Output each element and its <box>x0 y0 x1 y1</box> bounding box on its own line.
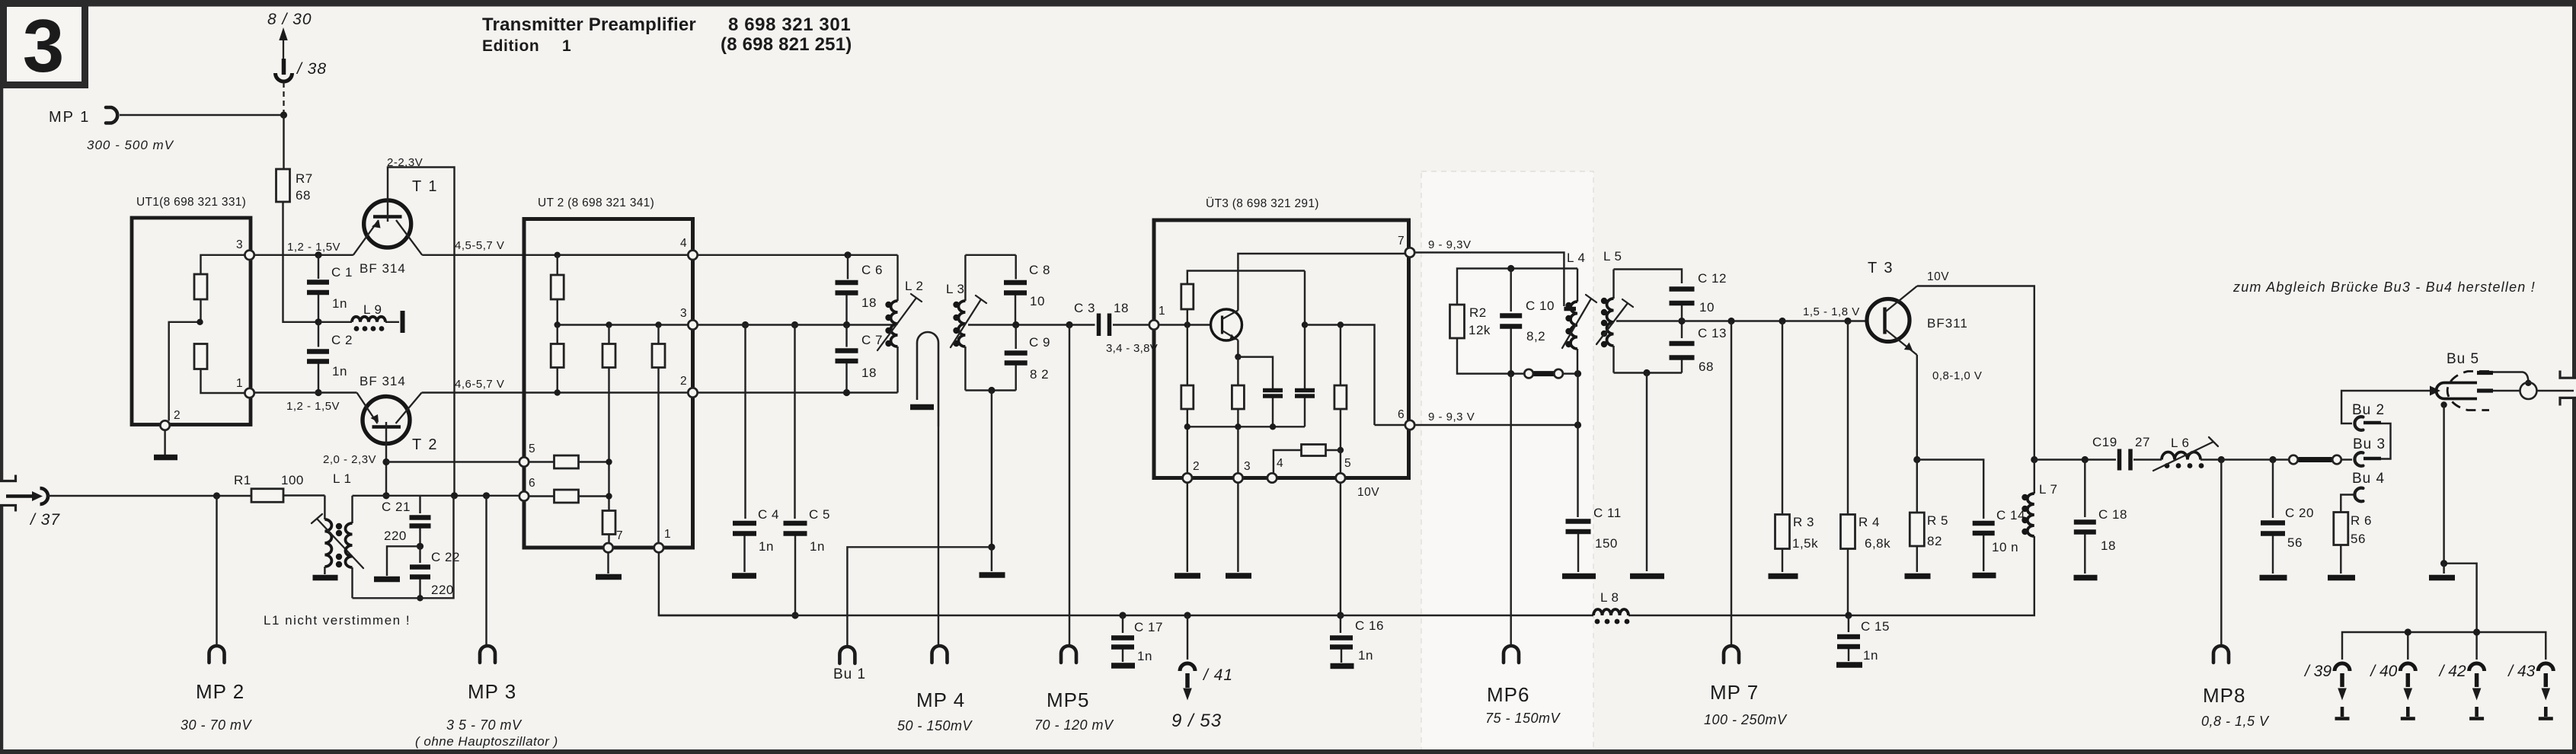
svg-text:1n: 1n <box>332 296 347 311</box>
ground of L5 rail <box>1630 373 1664 577</box>
svg-text:1n: 1n <box>759 539 774 554</box>
junction MP2 <box>213 492 220 499</box>
svg-text:C 8: C 8 <box>1029 263 1050 277</box>
inductor L8 in bus <box>1593 590 1629 624</box>
connector /38 socket <box>276 59 328 81</box>
resistor R1 <box>251 489 283 503</box>
L3 adjustment arrow <box>951 296 986 347</box>
measurement point MP6 <box>1485 646 1561 726</box>
wire L3 tap row to C3 <box>968 324 1095 325</box>
ground below UT2 pin7 <box>596 553 622 577</box>
svg-text:T 1: T 1 <box>412 178 439 195</box>
junction C7 bottom <box>843 389 850 396</box>
svg-text:R 3: R 3 <box>1793 515 1814 529</box>
svg-text:68: 68 <box>1699 359 1714 374</box>
capacitor C16 <box>1330 615 1384 666</box>
svg-text:L 3: L 3 <box>946 282 965 296</box>
junction L4 bottom on rail <box>1574 370 1581 377</box>
svg-text:220: 220 <box>384 529 407 543</box>
L1 adjustment arrow <box>312 514 363 568</box>
UT3 pin3 <box>1233 473 1242 482</box>
UT3 wire bus to pin3 <box>1237 427 1238 473</box>
svg-text:1: 1 <box>562 37 571 55</box>
measurement point MP7 <box>1704 646 1788 727</box>
inductor L2 <box>891 255 924 393</box>
resistor R5 <box>1905 460 1948 577</box>
output bridge sockets <box>2289 455 2352 465</box>
L4 adjustment arrow <box>1562 295 1596 348</box>
svg-text:C 14: C 14 <box>1996 508 2025 522</box>
wire C3 to UT3 pin1 <box>1113 324 1149 325</box>
svg-text:82: 82 <box>1927 534 1942 548</box>
UT3 bias junction <box>1184 321 1191 327</box>
measurement point MP3 <box>415 646 558 749</box>
svg-text:50 - 150mV: 50 - 150mV <box>897 718 973 733</box>
junction C1 top <box>315 251 321 258</box>
UT2 pin7 <box>603 543 612 552</box>
capacitor C14 <box>1973 508 2025 576</box>
capacitor C2 <box>307 322 353 393</box>
svg-text:L 7: L 7 <box>2039 482 2058 497</box>
svg-text:C 6: C 6 <box>861 263 883 277</box>
svg-text:T 2: T 2 <box>412 436 439 453</box>
wire UT2 pin2 to L2 bottom <box>698 391 898 393</box>
junction L4 bottom / pin6 row <box>1574 421 1581 428</box>
svg-text:Transmitter Preamplifier: Transmitter Preamplifier <box>482 14 696 35</box>
capacitor C20 <box>2260 460 2314 578</box>
svg-text:3: 3 <box>236 238 243 251</box>
svg-text:2: 2 <box>174 409 181 422</box>
connector Bu5 output jack <box>2430 351 2493 411</box>
capacitor C1 <box>307 255 353 322</box>
UT3 internal bus <box>1187 426 1305 427</box>
svg-text:8,2: 8,2 <box>1526 329 1545 343</box>
junction on pin circle <box>2525 380 2531 386</box>
connector /42 off-sheet <box>2438 663 2485 719</box>
L4 tap bar <box>1564 307 1576 312</box>
svg-text:12k: 12k <box>1469 323 1491 337</box>
measurement point MP4 <box>897 646 973 733</box>
svg-text:1: 1 <box>236 377 243 390</box>
svg-text:68: 68 <box>296 188 311 203</box>
wire Bu5 screen to ground and /39 manifold <box>2444 405 2477 633</box>
svg-text:1n: 1n <box>332 364 347 379</box>
measurement point MP1 <box>49 107 117 126</box>
junction Bu5 screen <box>2440 401 2447 407</box>
svg-text:3: 3 <box>680 307 687 320</box>
svg-text:C 7: C 7 <box>861 333 883 347</box>
svg-text:L 4: L 4 <box>1567 251 1586 265</box>
junction C20 <box>2269 456 2276 463</box>
svg-text:C 10: C 10 <box>1526 299 1555 313</box>
svg-text:C 20: C 20 <box>2285 506 2314 520</box>
svg-text:1: 1 <box>1159 305 1165 318</box>
UT2 pin6 <box>519 491 529 500</box>
svg-text:C 15: C 15 <box>1861 619 1890 634</box>
svg-text:8 / 30: 8 / 30 <box>267 11 312 28</box>
UT2 pin5 <box>519 457 529 466</box>
UT3 pin2 <box>1183 473 1192 482</box>
capacitor C22 <box>410 546 460 598</box>
svg-text:4: 4 <box>1277 457 1283 470</box>
junction R4 <box>1844 318 1851 324</box>
svg-text:Bu 3: Bu 3 <box>2353 436 2386 452</box>
svg-text:1,5 - 1,8 V: 1,5 - 1,8 V <box>1803 305 1860 318</box>
sheet border bottom <box>0 749 2576 754</box>
left edge connector brackets at /37 <box>0 475 16 512</box>
UT3 pin6 <box>1405 420 1414 430</box>
capacitor C4 <box>732 321 779 576</box>
capacitor C6 <box>836 255 883 325</box>
svg-text:3 5 - 70 mV: 3 5 - 70 mV <box>446 717 523 733</box>
UT3 bottom resistor to pin4 <box>1274 445 1341 474</box>
svg-text:56: 56 <box>2351 532 2366 546</box>
svg-text:18: 18 <box>861 296 877 310</box>
svg-text:/ 38: / 38 <box>296 60 327 78</box>
capacitor C21 <box>382 496 431 547</box>
svg-text:UT 2 (8 698 321 341): UT 2 (8 698 321 341) <box>538 196 654 209</box>
junction R4/C15 on bus <box>1845 612 1852 618</box>
junction MP5 <box>1066 321 1072 328</box>
junction C18 <box>2082 456 2089 463</box>
svg-text:L 2: L 2 <box>905 279 924 293</box>
svg-text:R2: R2 <box>1469 305 1487 320</box>
junction C12/C13 output tap <box>1678 318 1685 324</box>
transistor T2 BF314 <box>357 374 439 453</box>
wire T1 collector top loop to feedback rail <box>388 168 455 496</box>
svg-text:70 - 120 mV: 70 - 120 mV <box>1034 717 1114 733</box>
junction T3 emitter node <box>1913 456 1920 463</box>
wire MP2 drop <box>216 496 217 646</box>
tank bottom rail <box>1457 338 1523 374</box>
svg-text:C 2: C 2 <box>331 333 353 347</box>
svg-text:UT1(8 698 321 331): UT1(8 698 321 331) <box>136 196 246 209</box>
junction L3 bottom to Bu1 line <box>988 387 995 394</box>
UT3 base feed wire <box>1159 324 1212 325</box>
junction MP7 <box>1727 318 1734 324</box>
wire /37 to R1 <box>47 495 251 497</box>
ground of Bu5 screen <box>2429 564 2455 578</box>
socket Bu3 <box>2353 436 2386 466</box>
UT2 pin3 <box>688 320 697 329</box>
L6 adjustment arrow <box>2153 437 2218 471</box>
svg-text:L 5: L 5 <box>1603 249 1622 264</box>
svg-text:1n: 1n <box>1863 648 1878 663</box>
socket Bu2 <box>2352 402 2385 430</box>
wire UT2 pin3 to L2 tap <box>698 324 894 325</box>
UT3 pin1 <box>1149 320 1159 329</box>
wire Bu5 to sheet edge <box>2493 390 2574 391</box>
junction manifold /40 <box>2405 628 2411 635</box>
wire L3 bottom row <box>965 389 1015 391</box>
UT2 internal resistor pin4-pin3 <box>551 252 564 325</box>
junction C10 top <box>1507 265 1514 272</box>
svg-text:2: 2 <box>680 375 687 388</box>
svg-text:10V: 10V <box>1927 270 1949 283</box>
svg-text:56: 56 <box>2287 535 2303 550</box>
svg-text:C 1: C 1 <box>331 265 353 280</box>
UT3 net to pin6 <box>1305 321 1405 425</box>
wire manifold to off-sheet grounds <box>2342 632 2546 660</box>
UT2 internal resistor to pin7 <box>602 511 615 544</box>
svg-text:( ohne Hauptoszillator ): ( ohne Hauptoszillator ) <box>415 734 558 749</box>
L5 top rail to C12 <box>1614 270 1683 284</box>
capacitor C9 <box>1005 325 1050 391</box>
svg-text:4: 4 <box>680 237 687 250</box>
svg-text:L 1: L 1 <box>333 471 352 486</box>
wire C12/C13 tap to T3 base (1,5-1,8V) <box>1682 320 1867 321</box>
UT2 internal resistor chain 1 <box>551 321 564 395</box>
screen between L2 and L3 with ground <box>910 332 938 427</box>
svg-text:R1: R1 <box>234 473 251 487</box>
junction MP1/R7 <box>280 111 287 118</box>
wire Bu3 to Bu2 link <box>2381 423 2391 459</box>
connector /40 off-sheet <box>2369 663 2415 719</box>
junction C2 bottom <box>315 389 321 396</box>
junction C10 bottom <box>1507 370 1514 377</box>
junction output node at L7 <box>2031 456 2037 463</box>
wire down to Bu1 tee and ground <box>980 391 1005 576</box>
connector /39 off-sheet <box>2303 663 2350 719</box>
svg-text:L 6: L 6 <box>2171 436 2190 450</box>
svg-text:1,5k: 1,5k <box>1792 536 1818 551</box>
svg-text:18: 18 <box>2101 538 2116 553</box>
svg-text:0,8-1,0 V: 0,8-1,0 V <box>1932 369 1982 382</box>
transformer block UT1 (8 698 321 331) <box>132 196 251 425</box>
svg-text:/ 41: / 41 <box>1202 666 1233 684</box>
junction manifold /42 <box>2473 628 2480 635</box>
svg-text:Bu 4: Bu 4 <box>2352 471 2385 487</box>
capacitor C5 <box>784 321 830 615</box>
wire UT1 pin3 to T1 emitter (1,2-1,5V) <box>254 254 353 256</box>
svg-text:C 9: C 9 <box>1029 335 1050 350</box>
sheet border right (with Bu5 output gap) <box>2572 6 2576 751</box>
svg-text:T 3: T 3 <box>1868 260 1894 276</box>
svg-text:C 3: C 3 <box>1074 301 1095 315</box>
svg-text:MP8: MP8 <box>2203 684 2245 707</box>
coupling capacitor C19 <box>2092 435 2150 471</box>
junction C7 top <box>843 321 850 328</box>
wire Bu4 to R6 <box>2341 495 2355 513</box>
svg-text:zum Abgleich Brücke Bu3 - Bu4: zum Abgleich Brücke Bu3 - Bu4 herstellen… <box>2232 280 2536 295</box>
UT2 pin4 <box>688 251 697 260</box>
UT1 pin 3 <box>244 251 254 260</box>
svg-text:MP6: MP6 <box>1487 683 1529 706</box>
svg-text:MP5: MP5 <box>1047 689 1089 711</box>
UT2 pin3 row wire inside <box>558 324 688 325</box>
svg-text:3: 3 <box>1244 460 1251 473</box>
svg-text:C 5: C 5 <box>809 507 830 522</box>
title Transmitter Preamplifier <box>482 14 852 55</box>
sheet border top <box>0 0 2576 7</box>
svg-text:/ 43: / 43 <box>2507 663 2535 680</box>
svg-text:Bu 5: Bu 5 <box>2447 351 2479 367</box>
wire R7 down to oscillator node, corner to C1/C2 junction <box>283 202 319 322</box>
transformer block UT2 (8 698 321 341) <box>524 196 693 548</box>
capacitor C10 <box>1500 269 1555 374</box>
inductor L4 <box>1567 251 1586 374</box>
junction C8/C9 <box>1012 321 1019 328</box>
wire C19 to L6 <box>2133 458 2162 460</box>
svg-text:18: 18 <box>1114 301 1129 315</box>
svg-text:C19: C19 <box>2092 435 2117 449</box>
connector /43 off-sheet <box>2507 663 2553 719</box>
svg-text:1n: 1n <box>1358 648 1373 663</box>
wire L4/pin6 node down to C11 <box>1577 374 1578 517</box>
svg-text:220: 220 <box>431 583 454 597</box>
svg-text:/ 39: / 39 <box>2303 663 2332 680</box>
svg-text:100: 100 <box>281 473 304 487</box>
capacitor C13 <box>1670 324 1727 374</box>
transistor T3 BF311 <box>1867 260 1968 355</box>
transistor T1 BF314 <box>353 178 439 276</box>
UT2 internal resistor chain 3 <box>652 321 665 543</box>
svg-text:R 5: R 5 <box>1927 513 1948 528</box>
svg-text:4,5-5,7 V: 4,5-5,7 V <box>455 239 504 252</box>
L5 adjustment arrow <box>1596 299 1633 344</box>
UT2 pin2 <box>688 388 697 397</box>
sheet border left (with /37 connector gap) <box>0 6 3 751</box>
junction R3 <box>1779 318 1785 324</box>
wire base row to UT2 pin5 <box>386 461 526 462</box>
resistor R4 <box>1841 321 1891 616</box>
svg-text:Bu 2: Bu 2 <box>2352 402 2385 418</box>
L5 core dots <box>1601 298 1607 304</box>
junction C1/C2/L9/R7 <box>315 318 321 325</box>
capacitor C15 <box>1836 615 1890 665</box>
UT3 pin7 <box>1405 248 1414 257</box>
UT3 bias resistor upper <box>1181 271 1305 325</box>
L5 bottom rail <box>1614 372 1683 373</box>
svg-text:3,4 - 3,8V: 3,4 - 3,8V <box>1106 342 1158 355</box>
inductor L1 primary with ground <box>313 471 352 578</box>
L2 adjustment arrow <box>877 294 922 350</box>
junction /41 on bus <box>1184 612 1191 618</box>
wire UT1 pin1 to T2 emitter <box>254 391 357 393</box>
wire UT2 pin4 to L2 top <box>698 254 898 256</box>
inductor L5 <box>1603 249 1622 373</box>
wire UT3 pin6 row (9-9,3V) <box>1415 424 1578 426</box>
L4 core dots <box>1565 302 1571 308</box>
junction tank/feedback rail <box>451 492 458 499</box>
junction MP8 <box>2218 456 2225 463</box>
node 8/30 off-sheet arrow <box>267 11 312 59</box>
transformer block UT3 (8 698 321 291) <box>1154 196 1409 478</box>
svg-text:BF 314: BF 314 <box>360 374 406 388</box>
svg-text:10: 10 <box>1030 294 1045 308</box>
inductor L7 to ground bus <box>2028 460 2058 616</box>
svg-text:MP 1: MP 1 <box>49 109 90 126</box>
svg-text:MP 2: MP 2 <box>196 680 244 703</box>
emitter node to C14 <box>1917 460 1983 519</box>
wire MP3 drop <box>485 496 487 646</box>
svg-text:C 18: C 18 <box>2098 507 2127 522</box>
svg-text:18: 18 <box>861 366 877 380</box>
svg-text:2,0 - 2,3V: 2,0 - 2,3V <box>323 453 376 466</box>
UT3 internal transistor <box>1211 309 1242 341</box>
junction T2 base / MP row <box>382 458 389 465</box>
ground bus <box>659 615 2033 616</box>
inductor L9 with shield terminator <box>318 302 403 333</box>
capacitor C7 <box>836 325 883 393</box>
wire MP8 drop <box>2220 460 2222 647</box>
svg-text:C 17: C 17 <box>1134 620 1163 634</box>
capacitor C12 <box>1670 271 1727 318</box>
capacitor C11 <box>1562 506 1622 577</box>
L3 core dots <box>953 302 959 308</box>
svg-text:9 / 53: 9 / 53 <box>1171 711 1222 731</box>
svg-text:1,2 - 1,5V: 1,2 - 1,5V <box>286 400 340 413</box>
UT2 pin6 row with series resistor <box>529 490 612 503</box>
wire tank bottom row up to top row <box>353 496 454 599</box>
light alignment strip around MP6 column <box>1421 171 1593 750</box>
UT3 collector wire to pin7 <box>1238 254 1405 311</box>
L5 tap wire <box>1616 320 1682 321</box>
svg-text:5: 5 <box>529 442 535 455</box>
junction tank top <box>382 492 389 499</box>
svg-text:30 - 70 mV: 30 - 70 mV <box>181 717 253 733</box>
UT3 pin4 <box>1267 473 1277 482</box>
svg-text:100 - 250mV: 100 - 250mV <box>1704 712 1788 727</box>
junction MP3 <box>483 492 490 499</box>
junction C21/C22 centre tap <box>417 543 423 550</box>
svg-text:1n: 1n <box>1137 649 1152 663</box>
svg-text:R 6: R 6 <box>2351 513 2372 528</box>
svg-text:C 21: C 21 <box>382 500 411 514</box>
ground below UT3 pin2 <box>1175 483 1200 576</box>
connector /41 to 9/53 <box>1171 615 1233 731</box>
junction screen ground tee <box>2440 560 2447 567</box>
centre tap ground <box>374 546 420 579</box>
svg-text:1: 1 <box>664 528 671 541</box>
svg-text:9 - 9,3 V: 9 - 9,3 V <box>1428 411 1475 423</box>
wire tank top row <box>353 495 526 497</box>
svg-text:MP 7: MP 7 <box>1710 681 1759 704</box>
svg-text:0,8 - 1,5 V: 0,8 - 1,5 V <box>2201 714 2270 729</box>
UT1 internal wiring <box>169 255 245 421</box>
wire MP1 to supply node <box>120 114 284 116</box>
svg-text:/ 37: / 37 <box>29 511 60 529</box>
UT1 internal junction <box>197 319 203 325</box>
UT1 pin 2 <box>160 420 169 430</box>
svg-text:R 4: R 4 <box>1858 515 1880 529</box>
svg-text:C 11: C 11 <box>1593 506 1622 520</box>
wire T1 emitter to UT2 (4,5-5,7V) <box>422 254 688 256</box>
wire UT3 pin5 to ground bus <box>1340 483 1341 615</box>
svg-text:2: 2 <box>1193 460 1200 473</box>
UT3 lower bias resistor <box>1181 325 1194 474</box>
right edge connector brackets at Bu5 <box>2560 371 2576 406</box>
svg-text:Bu 1: Bu 1 <box>833 666 866 682</box>
svg-text:C 13: C 13 <box>1698 326 1727 340</box>
capacitor C8 <box>1004 255 1050 325</box>
UT2 pin4 row wire inside <box>558 254 688 256</box>
wire MP6 from C10 column <box>1510 374 1511 646</box>
svg-text:4,6-5,7 V: 4,6-5,7 V <box>455 378 504 391</box>
UT3 emitter bypass capacitor <box>1263 391 1283 427</box>
svg-text:9 - 9,3V: 9 - 9,3V <box>1428 238 1472 251</box>
svg-text:7: 7 <box>616 529 623 542</box>
svg-text:10 n: 10 n <box>1992 540 2018 554</box>
Bu5 upper contact loop to pin <box>2493 372 2528 383</box>
UT3 right resistor <box>1334 325 1347 454</box>
svg-text:150: 150 <box>1595 536 1618 551</box>
output pin circle <box>2520 382 2537 399</box>
resistor R3 <box>1769 321 1819 577</box>
UT3 emitter network <box>1232 340 1273 427</box>
UT2 pin5 row with series resistor <box>529 455 612 468</box>
ground below UT1 pin 2 <box>154 430 177 458</box>
